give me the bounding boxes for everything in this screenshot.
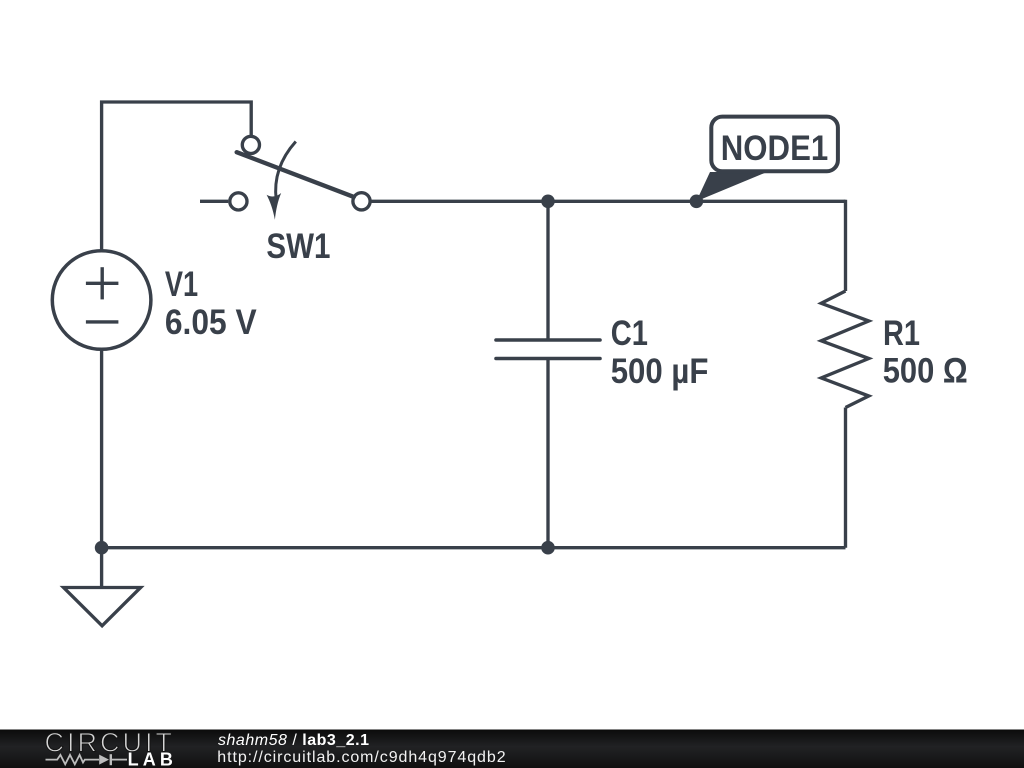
svg-text:R1: R1: [883, 313, 920, 353]
footer bar: [0, 730, 1024, 768]
wire right branch down to resistor: [844, 200, 847, 291]
wire ground lead: [100, 548, 103, 588]
junction dot at capacitor bottom: [541, 541, 555, 555]
wire V1 bottom to ground rail: [100, 349, 103, 547]
switch SW1 right terminal circle: [353, 193, 370, 210]
svg-text:500 µF: 500 µF: [611, 351, 709, 391]
svg-text:500 Ω: 500 Ω: [883, 351, 968, 391]
svg-text:http://circuitlab.com/c9dh4q97: http://circuitlab.com/c9dh4q974qdb2: [217, 749, 505, 766]
switch SW1 top terminal circle: [242, 136, 259, 153]
capacitor C1 bottom plate: [496, 357, 600, 361]
switch SW1 left throw terminal circle: [230, 193, 247, 210]
resistor R1 zigzag: [821, 291, 869, 408]
junction dot at ground: [95, 541, 109, 555]
wire top-left loop from V1 to switch: [102, 102, 252, 251]
svg-text:shahm58 / lab3_2.1: shahm58 / lab3_2.1: [218, 732, 369, 749]
wire switch to right corner (top rail): [370, 200, 845, 203]
svg-text:V1: V1: [165, 264, 198, 304]
switch SW1 arrowhead: [267, 193, 282, 220]
ground symbol: [64, 588, 141, 626]
V1 plus sign: [86, 267, 119, 299]
wire bottom rail: [102, 546, 846, 549]
NODE1 flag tail: [696, 172, 767, 201]
junction dot at NODE1: [690, 195, 704, 209]
capacitor C1 top plate: [496, 338, 600, 342]
svg-text:6.05 V: 6.05 V: [165, 302, 257, 342]
wire capacitor top lead: [546, 201, 549, 340]
logo diode triangle: [99, 755, 109, 765]
logo squiggle wire right: [112, 759, 127, 761]
V1 minus sign: [86, 320, 119, 323]
svg-text:NODE1: NODE1: [721, 128, 828, 168]
switch SW1 actuation arrow arc: [276, 142, 296, 201]
voltage source V1 circle: [52, 251, 151, 350]
NODE1 flag box: [711, 117, 838, 172]
junction dot at capacitor top: [541, 195, 555, 209]
switch SW1 left throw stub wire: [200, 200, 228, 203]
logo squiggle wire left: [46, 755, 100, 764]
wire capacitor bottom lead: [546, 359, 549, 548]
logo diode cathode bar: [110, 754, 112, 765]
switch SW1 blade: [237, 152, 354, 197]
wire resistor bottom to bottom rail: [844, 408, 847, 548]
svg-text:SW1: SW1: [266, 226, 330, 266]
svg-text:LAB: LAB: [128, 750, 173, 768]
svg-text:C1: C1: [611, 313, 648, 353]
